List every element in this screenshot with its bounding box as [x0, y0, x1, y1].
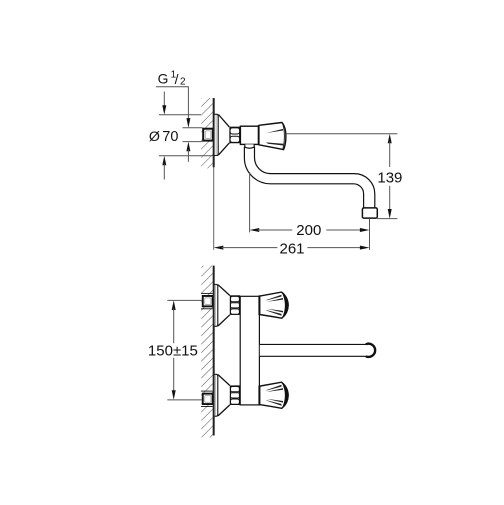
svg-text:200: 200 [296, 222, 321, 239]
hex nut (side view) [230, 127, 240, 142]
svg-text:G: G [158, 72, 169, 87]
svg-text:Ø: Ø [149, 129, 160, 145]
svg-text:2: 2 [180, 77, 186, 88]
261 dimension line [214, 246, 224, 250]
upper handle (plan view) [259, 292, 288, 318]
G 1/2 square bottom extension line [183, 141, 203, 143]
wall face line (side view) [213, 98, 215, 167]
escutcheon cone (side view) [218, 115, 229, 156]
handle bell (side view) [259, 123, 286, 150]
lower hex nut (plan view) [230, 386, 239, 404]
handle streak upper [266, 129, 284, 133]
escutcheon flange (side view) [214, 114, 219, 155]
lower escutcheon flange (plan view) [214, 374, 218, 416]
139 bottom extension line (from aerator) [377, 218, 397, 220]
wall hatching (plan view) [201, 266, 213, 438]
svg-text:/: / [175, 71, 179, 87]
lower escutcheon cone (plan view) [218, 375, 230, 416]
lower handle (plan view) [259, 382, 288, 408]
svg-text:261: 261 [279, 240, 304, 257]
spout pivot extension line [249, 172, 251, 232]
upper escutcheon flange (plan view) [214, 284, 218, 326]
diameter 70 bottom arrow (up) [162, 156, 166, 166]
spout tube (plan view) [260, 344, 366, 356]
wall face line redraw (plan view) [213, 266, 215, 436]
handle rim inner line [283, 124, 285, 149]
upper hex nut (plan view) [230, 296, 239, 314]
wall face line (plan view) [213, 266, 215, 436]
150 upper extension line [167, 299, 202, 301]
150+-15 dimension line [172, 300, 176, 310]
139 dimension line [388, 134, 392, 144]
spout (side view) [244, 147, 374, 208]
body/handle thick edge [258, 125, 260, 145]
wall hatching (side view) [201, 98, 214, 168]
139 top extension line (from handle) [286, 133, 398, 135]
spout collar under body [245, 144, 254, 148]
upper escutcheon cone (plan view) [218, 285, 230, 326]
svg-text:70: 70 [162, 129, 178, 145]
supply square fitting (side view) [203, 129, 213, 141]
200 dimension line [250, 228, 260, 232]
aerator (side view) [362, 208, 377, 218]
wall extension line down to 261 dimension [213, 167, 215, 250]
diameter 70 top arrow (down) [163, 92, 165, 108]
G 1/2 label underline and leader [156, 86, 189, 88]
handle streak lower [266, 142, 283, 145]
spout tube (plan view) end cap [366, 344, 375, 357]
diameter 70 bottom extension line [159, 155, 214, 157]
svg-text:150±15: 150±15 [148, 342, 198, 359]
lower supply square (plan view) [201, 390, 213, 392]
wall face line redraw (side view) [213, 98, 215, 167]
G 1/2 leader arrow (down) [186, 118, 190, 128]
valve body (side view) [240, 126, 258, 144]
aerator extension line [369, 219, 371, 250]
G 1/2 square top extension line [183, 127, 203, 129]
G 1/2 lower arrow (up) [186, 142, 190, 152]
upper supply square (plan view) [201, 292, 213, 294]
svg-text:139: 139 [377, 169, 402, 186]
faucet body bar (plan view) [240, 296, 259, 405]
150 lower extension line [167, 399, 202, 401]
diameter 70 top extension line [159, 114, 201, 116]
